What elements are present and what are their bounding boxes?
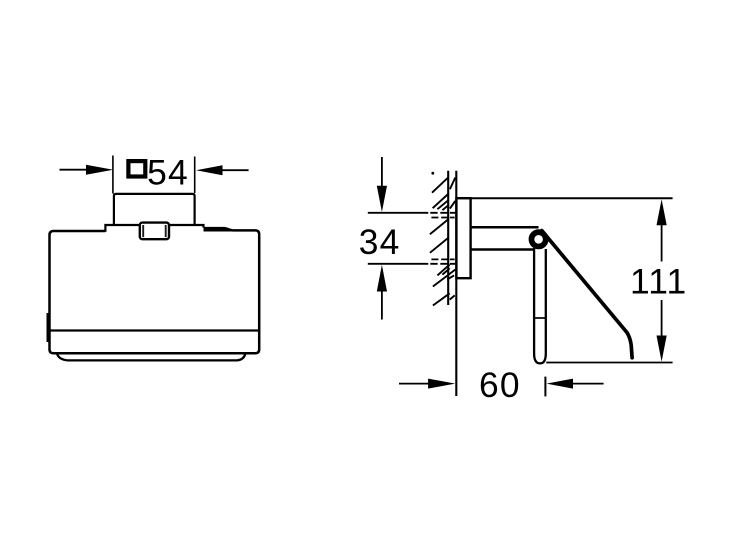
dim 60 right arrow and leader: [547, 379, 574, 389]
dim 54 right leader and arrow: [222, 169, 248, 171]
front view left side bump: [47, 313, 50, 342]
front view inner horizontal line: [50, 329, 260, 331]
dim 34 vertical line lower with up arrow: [381, 291, 383, 320]
clip tab front view: [140, 223, 169, 240]
svg-text:34: 34: [359, 222, 401, 262]
front view top step line: [105, 225, 203, 232]
dim 34 bottom reference line: [368, 263, 429, 265]
wall left line: [447, 171, 449, 305]
top screw hidden dashes lower: [431, 217, 454, 219]
wall hatching: [430, 177, 456, 305]
svg-text:60: 60: [479, 365, 521, 405]
flap cover: [542, 231, 632, 358]
pivot ring: [531, 232, 545, 246]
clip tab inner lines: [143, 225, 166, 237]
svg-text:111: 111: [630, 262, 687, 302]
wall plate front view: [114, 194, 195, 225]
bottom screw hidden dashes lower: [430, 263, 455, 265]
wall right line: [455, 171, 457, 396]
dim 54 left leader and arrow: [60, 169, 88, 171]
dim 54 left extension line: [112, 156, 114, 194]
front view body outline: [50, 230, 260, 353]
dim 34 top reference line: [368, 212, 429, 214]
dim 54 right extension line: [194, 157, 196, 194]
square symbol of dim 54: [128, 161, 145, 176]
dim 34 vertical line upper with down arrow: [381, 157, 383, 187]
top reference line for dim 111: [456, 197, 672, 199]
svg-text:54: 54: [147, 152, 189, 192]
dim 60 right extension tick: [544, 377, 546, 397]
front view top-right thick chamfer band: [204, 227, 233, 232]
roll holder bar joint tick: [534, 317, 546, 319]
dim 111 vertical line with up arrow: [661, 225, 663, 262]
front view rounded base: [57, 353, 245, 360]
roll holder bar: [534, 248, 546, 363]
top screw hidden dashes upper: [430, 212, 455, 214]
wall speck dot: [431, 172, 434, 175]
dim 111 vertical line with down arrow: [661, 300, 663, 336]
bottom screw hidden dashes upper: [431, 258, 454, 260]
bottom reference line for dim 111: [546, 362, 672, 364]
bracket arm upper line: [471, 226, 539, 229]
dim 60 left leader and arrow: [399, 383, 429, 385]
bracket arm lower line: [471, 248, 534, 251]
wall plate side view: [456, 198, 470, 278]
